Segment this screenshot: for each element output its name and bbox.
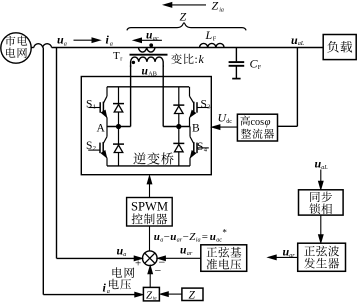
impedance box Zia — [143, 287, 159, 301]
svg-text:+: + — [135, 258, 141, 270]
label Zia (top right) — [212, 0, 224, 13]
label uaL (sync input) — [315, 157, 329, 171]
label S2 — [86, 140, 96, 152]
svg-text:φ: φ — [265, 116, 271, 128]
arrow: SPWM gate drive into bridge — [147, 176, 152, 198]
node A junction dot — [116, 124, 121, 129]
svg-text:ia: ia — [153, 296, 157, 302]
svg-text:S: S — [197, 141, 203, 153]
svg-text:ac: ac — [216, 236, 222, 243]
diode D3 (antiparallel, upper right) — [173, 87, 184, 127]
transformer Tr primary polarity dot — [149, 43, 153, 47]
label Z over brace — [180, 10, 187, 24]
transistor S1 (IGBT, upper left) — [89, 87, 107, 127]
svg-text:B: B — [192, 123, 200, 135]
svg-text:aL: aL — [321, 164, 328, 171]
svg-text:ar: ar — [289, 252, 295, 259]
label CF — [250, 57, 262, 72]
svg-text::: : — [195, 54, 198, 66]
svg-text:a: a — [123, 251, 126, 258]
brace: Z section span — [127, 23, 246, 31]
label ia (bottom) — [103, 281, 110, 296]
arrow: uaL into PLL box — [319, 170, 324, 190]
label B — [192, 123, 200, 135]
svg-text:a: a — [64, 40, 67, 47]
label - sign (below) — [155, 264, 162, 278]
rectifier box 高cosφ整流器 — [237, 114, 277, 141]
label uaL — [291, 33, 305, 47]
label Tr — [113, 50, 122, 63]
svg-text:Z: Z — [189, 289, 196, 301]
svg-text:aL: aL — [298, 40, 305, 47]
svg-text:A: A — [97, 123, 106, 135]
transistor S3 (IGBT, upper right) — [190, 87, 209, 127]
svg-text:Z: Z — [180, 10, 187, 24]
wire: main AC line from source to load — [52, 47, 324, 49]
arrow: ia current direction — [74, 38, 101, 43]
label 变比:k turns ratio — [171, 52, 204, 66]
label 逆变桥 — [133, 152, 173, 164]
arrow: uac direction (left) — [134, 38, 162, 43]
svg-text:u: u — [170, 231, 176, 243]
label S3 — [201, 99, 211, 111]
diode D1 (antiparallel, upper left) — [113, 87, 124, 127]
arrow: uar into summing junction (from right) — [157, 256, 200, 261]
label LF — [205, 28, 217, 43]
label + sign — [135, 258, 141, 270]
wire: secondary right lead down to node B — [163, 65, 190, 126]
svg-text:L: L — [205, 28, 213, 42]
label uac — [146, 30, 159, 42]
inductor LF: filter inductor, 3 humps — [200, 43, 225, 47]
SPWM controller box SPWM控制器 — [127, 198, 173, 227]
wire: ua voltage sense drop — [57, 48, 137, 259]
sine reference voltage box 正弦基准电压 — [201, 245, 247, 271]
inverter bridge box 逆变桥 — [81, 77, 211, 175]
svg-text:ia: ia — [196, 236, 201, 243]
svg-text:ia: ia — [219, 7, 224, 13]
svg-text:1: 1 — [93, 104, 96, 111]
wire: DC+ top rail — [107, 86, 189, 88]
label 电网电压 grid voltage — [109, 267, 134, 289]
capacitor CF: filter capacitor — [229, 48, 245, 79]
diode D2 (antiparallel, lower left) — [113, 127, 124, 166]
node B junction dot — [176, 124, 181, 129]
label ua on main line — [57, 33, 67, 48]
svg-text:r: r — [120, 56, 122, 63]
svg-text:SPWM: SPWM — [131, 200, 168, 214]
PLL box 同步锁相 — [299, 190, 344, 215]
svg-text:*: * — [222, 228, 227, 238]
impedance box Z — [182, 288, 203, 301]
svg-text:S: S — [86, 140, 92, 152]
label A — [97, 123, 106, 135]
transformer Tr core bar — [130, 54, 168, 56]
svg-text:a: a — [110, 40, 113, 47]
label S4 — [197, 141, 208, 153]
svg-text:cos: cos — [251, 117, 265, 128]
label equation ua-uar-Zia=uac* — [154, 228, 228, 244]
label ua at summing input — [117, 244, 127, 259]
sine wave generator box 正弦波发生器 — [298, 243, 346, 271]
svg-text:F: F — [258, 64, 262, 71]
wire: summing junction output up to SPWM — [149, 226, 151, 251]
label ia — [106, 33, 113, 48]
transistor S2 (IGBT, lower left) — [88, 127, 107, 166]
svg-text:3: 3 — [207, 104, 210, 111]
transformer Tr secondary polarity dot — [132, 61, 135, 64]
label uAB — [142, 66, 157, 78]
arrow: uar output of sine generator — [268, 255, 298, 260]
transformer Tr secondary: 4 humps — [131, 57, 164, 67]
svg-text:Z: Z — [212, 0, 219, 13]
load box 负载 — [323, 35, 356, 60]
wire: drop to rectifier — [278, 48, 298, 127]
svg-text:−: − — [155, 264, 162, 278]
svg-text:2: 2 — [93, 145, 96, 152]
svg-text:dc: dc — [226, 118, 232, 125]
inductor Ls: grid source impedance, 2 humps — [31, 44, 52, 48]
svg-text:u: u — [154, 231, 160, 243]
arrow: ua into summing junction — [134, 256, 142, 261]
label S1 — [86, 99, 96, 111]
svg-text:S: S — [86, 99, 92, 111]
label uar (output) — [283, 245, 296, 259]
arrow: Zia*ia into summing junction (from below) — [148, 266, 153, 288]
arrow: Z into Zia — [160, 292, 182, 297]
label uar — [180, 245, 193, 257]
svg-text:−: − — [164, 231, 170, 243]
svg-text:a: a — [107, 288, 110, 295]
diode D4 (antiparallel, lower right) — [173, 127, 184, 166]
transistor S4 (IGBT, lower right) — [190, 127, 209, 166]
arrow: PLL to sine generator — [319, 215, 324, 243]
svg-text:−: − — [183, 231, 189, 243]
arrow: Udc into bridge — [212, 125, 238, 130]
arrow: Zia impedance direction (top) — [164, 3, 206, 8]
svg-text:k: k — [199, 52, 205, 66]
summing junction (circle with X) — [143, 251, 158, 266]
svg-text:ar: ar — [187, 250, 193, 257]
svg-text:=: = — [202, 231, 208, 243]
transformer Tr primary: 2 cups below main line — [138, 48, 155, 53]
svg-text:T: T — [113, 50, 120, 62]
svg-text:u: u — [210, 231, 216, 243]
wire: ia current sense drop to bottom rail — [43, 48, 136, 295]
wire: secondary left lead down to node A — [107, 65, 131, 126]
source G1: utility grid 市电电网 — [1, 33, 31, 63]
label Udc — [218, 111, 233, 125]
wire: DC- bottom rail — [107, 165, 190, 167]
svg-text:F: F — [213, 36, 217, 43]
arrow: ia into Zia box — [135, 292, 143, 297]
svg-text:S: S — [201, 99, 207, 111]
label - sign (right) — [159, 255, 166, 269]
